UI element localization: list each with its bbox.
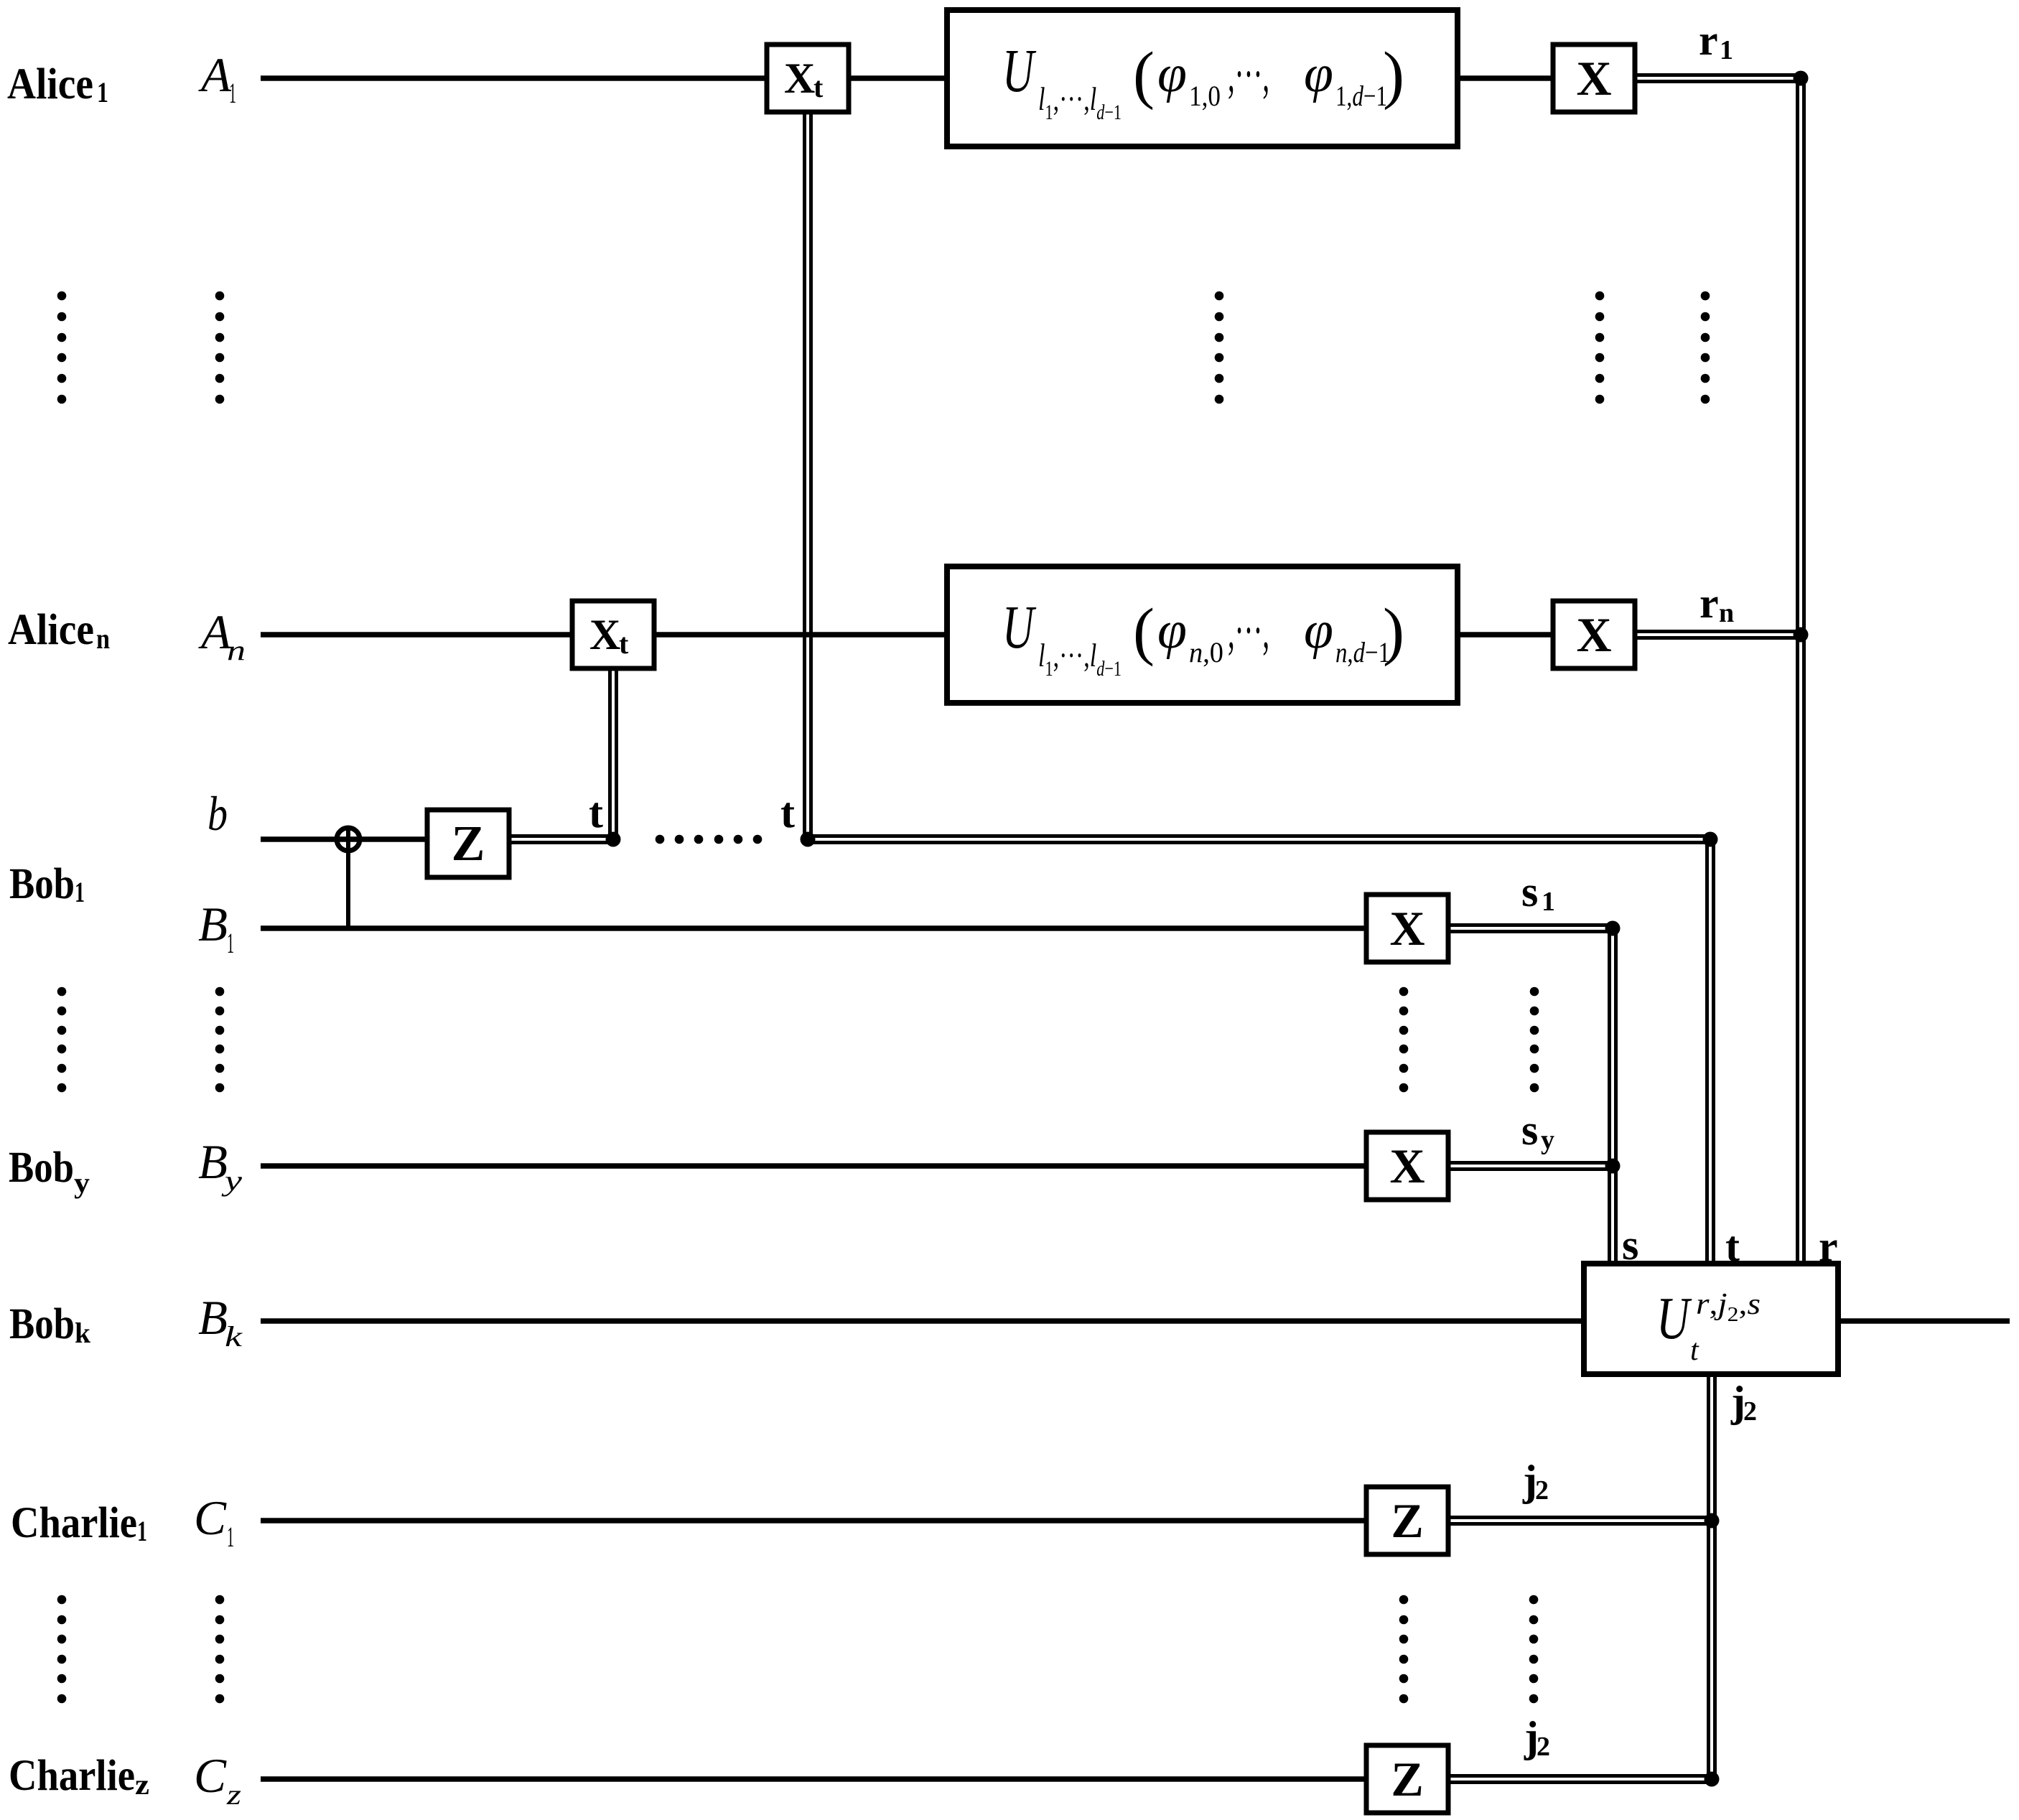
- gate Xt on wire An: [572, 601, 654, 668]
- ellipsis dots Alice labels column: [57, 291, 67, 404]
- classical control line t from gate Xt on An down to wire b: [610, 668, 617, 841]
- classical wire s1 from X measurement on B1: [1448, 925, 1615, 932]
- svg-text:r: r: [1699, 579, 1719, 627]
- node corner of classical wire r1: [1794, 71, 1809, 86]
- svg-text:φ: φ: [1304, 45, 1333, 103]
- svg-text:): ): [1383, 596, 1404, 667]
- svg-text:k: k: [225, 1320, 243, 1353]
- classical control line t from gate Xt on A1 down to wire b: [805, 112, 811, 841]
- svg-text:U: U: [1002, 592, 1036, 661]
- svg-text:t: t: [1690, 1334, 1699, 1367]
- svg-text:Bob: Bob: [9, 1300, 75, 1348]
- svg-text:y: y: [74, 1167, 90, 1199]
- gate Ut(r,j2,s) on wire Bk: [1584, 1264, 1838, 1374]
- wire A1 segment left: [261, 75, 767, 81]
- svg-text:n: n: [227, 634, 246, 666]
- node junction rn joins r: [1794, 627, 1809, 643]
- svg-text:1: 1: [229, 77, 236, 109]
- svg-text:s: s: [1521, 868, 1538, 915]
- gate Z measurement on wire C1: [1366, 1487, 1448, 1554]
- ellipsis dots C wires column: [215, 1595, 225, 1704]
- svg-text:n: n: [1719, 598, 1734, 628]
- svg-text:1: 1: [227, 927, 234, 959]
- wire B1: [261, 925, 1366, 931]
- classical wire t vertical down to gate Ut: [1707, 834, 1714, 1264]
- wire An segment mid: [654, 632, 947, 638]
- svg-text:Bob: Bob: [9, 860, 75, 908]
- node junction j2 of C1: [1705, 1513, 1720, 1529]
- svg-text:y: y: [221, 1165, 243, 1197]
- svg-text:Alice: Alice: [8, 606, 94, 654]
- svg-text:r: r: [1699, 17, 1718, 64]
- svg-text:t: t: [589, 789, 603, 836]
- svg-text:k: k: [75, 1317, 91, 1349]
- wire A1 segment right: [1458, 75, 1553, 81]
- svg-text:Z: Z: [1391, 1493, 1423, 1548]
- node corner of classical wire t: [1703, 832, 1718, 847]
- gate X measurement on wire A1: [1553, 45, 1635, 112]
- svg-text:1,0: 1,0: [1189, 80, 1221, 112]
- gate Z on wire b: [427, 810, 509, 877]
- gate Xt on wire A1: [767, 45, 849, 112]
- svg-text:B: B: [198, 1290, 228, 1345]
- svg-text:X: X: [1389, 901, 1425, 956]
- node junction t from Xt(A1) on wire b: [801, 832, 816, 847]
- svg-text:Charlie: Charlie: [9, 1752, 135, 1800]
- svg-text:A: A: [198, 47, 232, 102]
- classical wire r1 from X measurement on A1: [1635, 75, 1804, 82]
- formula inside gate U on A1: [1002, 36, 1404, 124]
- svg-text:r: r: [1819, 1223, 1838, 1270]
- wire Cz: [261, 1776, 1366, 1782]
- ellipsis dots s labels column: [1530, 987, 1539, 1093]
- ellipsis dots U gates column: [1215, 291, 1224, 404]
- svg-text:n,d−1: n,d−1: [1335, 636, 1390, 668]
- svg-text:n,0: n,0: [1189, 636, 1223, 668]
- formula inside gate U on An: [1002, 592, 1404, 681]
- gate U(l1..ld-1) on wire An: [947, 566, 1458, 703]
- svg-text:t: t: [1725, 1223, 1740, 1270]
- classical wire sy from X measurement on By: [1448, 1163, 1615, 1170]
- svg-text:,···,: ,···,: [1228, 602, 1269, 659]
- svg-text:Charlie: Charlie: [11, 1499, 137, 1547]
- ellipsis dots Bob labels column: [57, 987, 67, 1093]
- svg-text:s: s: [1521, 1106, 1538, 1154]
- svg-text:Z: Z: [1391, 1752, 1423, 1806]
- svg-text:2: 2: [1537, 1732, 1550, 1762]
- classical wire j2 from Z measurement on C1: [1448, 1518, 1715, 1524]
- classical wire t on row b from gate Z: [509, 836, 616, 843]
- svg-text:B: B: [198, 897, 228, 951]
- svg-text:1: 1: [1542, 887, 1555, 917]
- classical wire j2 from Z measurement on Cz: [1448, 1776, 1715, 1783]
- svg-text:1: 1: [227, 1521, 234, 1553]
- ellipsis dots X gates column: [1595, 291, 1605, 404]
- node junction t from Xt(An) on wire b: [606, 832, 621, 847]
- svg-text:X: X: [589, 611, 620, 658]
- svg-text:y: y: [1541, 1125, 1554, 1155]
- gate X measurement on wire By: [1366, 1132, 1448, 1200]
- wire An segment right: [1458, 632, 1553, 638]
- svg-text:s: s: [1622, 1221, 1638, 1269]
- wire b: [261, 836, 427, 842]
- svg-text:φ: φ: [1157, 601, 1187, 660]
- svg-text:t: t: [780, 789, 795, 836]
- svg-text:z: z: [135, 1768, 149, 1801]
- formula inside gate Ut: [1656, 1285, 1761, 1367]
- svg-text:X: X: [1576, 607, 1611, 662]
- ellipsis dots j2 labels column: [1529, 1595, 1539, 1704]
- classical wire t on row b to the right: [808, 836, 1713, 843]
- CNOT target on wire b: [337, 826, 360, 853]
- ellipsis dots on classical wire t row b: [656, 835, 763, 844]
- svg-text:C: C: [194, 1748, 227, 1803]
- svg-text:B: B: [198, 1134, 228, 1189]
- svg-text:n: n: [96, 622, 110, 655]
- svg-text:φ: φ: [1304, 601, 1333, 660]
- ellipsis dots r labels column: [1701, 291, 1710, 404]
- svg-text:t: t: [619, 627, 629, 660]
- wire An segment left: [261, 632, 572, 638]
- svg-text:Bob: Bob: [9, 1144, 74, 1192]
- gate Z measurement on wire Cz: [1366, 1745, 1448, 1813]
- svg-text:X: X: [1576, 51, 1611, 106]
- gate U(l1..ld-1) on wire A1: [947, 10, 1458, 146]
- ellipsis dots A wires column: [215, 291, 225, 404]
- svg-text:X: X: [1389, 1139, 1425, 1193]
- ellipsis dots B wires column: [215, 987, 225, 1093]
- svg-text:U: U: [1002, 36, 1036, 105]
- classical wire r vertical down to gate Ut: [1798, 73, 1804, 1264]
- svg-text:φ: φ: [1157, 45, 1187, 103]
- svg-text:1: 1: [75, 876, 85, 908]
- svg-text:t: t: [813, 71, 824, 103]
- svg-text:X: X: [784, 55, 815, 102]
- svg-text:): ): [1383, 39, 1404, 111]
- ellipsis dots Charlie labels column: [57, 1595, 67, 1704]
- wire C1: [261, 1518, 1366, 1523]
- svg-text:2: 2: [1743, 1396, 1757, 1427]
- svg-text:1: 1: [137, 1515, 147, 1547]
- wire Bk segment left: [261, 1318, 1584, 1324]
- svg-text:2: 2: [1535, 1475, 1549, 1506]
- svg-text:b: b: [208, 786, 228, 841]
- gate X measurement on wire B1: [1366, 895, 1448, 962]
- gate X measurement on wire An: [1553, 601, 1635, 668]
- classical wire rn from X measurement on An: [1635, 632, 1804, 638]
- node junction sy joins s: [1605, 1159, 1621, 1174]
- wire A1 segment mid: [849, 75, 947, 81]
- classical wire j2 vertical from gate Ut: [1709, 1374, 1715, 1784]
- svg-text:(: (: [1133, 39, 1155, 111]
- ellipsis dots Z gates Charlie column: [1399, 1595, 1409, 1704]
- svg-text:C: C: [194, 1490, 227, 1545]
- svg-text:U: U: [1656, 1285, 1692, 1352]
- svg-text:(: (: [1133, 596, 1155, 667]
- node corner of classical wire s1: [1605, 921, 1621, 936]
- svg-text:,···,: ,···,: [1228, 45, 1269, 103]
- control line from CNOT target down to wire B1: [346, 839, 350, 928]
- node corner of classical wire j2 of Cz: [1705, 1772, 1720, 1787]
- svg-text:1: 1: [1720, 35, 1733, 65]
- ellipsis dots X gates Bob column: [1399, 987, 1409, 1093]
- svg-text:1: 1: [97, 76, 108, 108]
- svg-text:1,d−1: 1,d−1: [1335, 80, 1387, 112]
- wire Bk segment right: [1838, 1318, 2010, 1324]
- svg-text:Z: Z: [452, 816, 485, 872]
- classical wire s vertical down to gate Ut: [1610, 923, 1616, 1264]
- svg-text:z: z: [226, 1778, 242, 1811]
- wire By: [261, 1163, 1366, 1169]
- svg-text:Alice: Alice: [7, 60, 93, 108]
